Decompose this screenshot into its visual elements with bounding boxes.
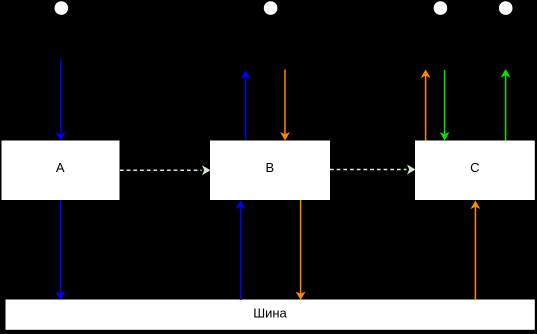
interface circle 1 (above A) <box>55 1 69 15</box>
wire: blue arrow up from bus into B bottom <box>236 201 246 301</box>
block A <box>2 141 120 201</box>
wire: blue arrow down from A bottom to bus <box>56 200 66 300</box>
svg-text:B: B <box>265 160 274 175</box>
wire: orange arrow down into B top <box>280 70 290 141</box>
svg-text:Шина: Шина <box>253 306 287 321</box>
wire: orange arrow up above C <box>421 70 431 141</box>
wire: dashed arrow A to B <box>120 165 211 175</box>
bus Шина <box>6 300 535 330</box>
wire: dashed arrow B to C <box>330 165 416 175</box>
svg-text:C: C <box>470 160 479 175</box>
wire: green arrow down into C top <box>440 70 450 141</box>
block B <box>210 141 330 201</box>
wire: blue arrow up into B top area <box>241 71 251 141</box>
interface circle 2 (above B) <box>264 1 278 15</box>
block C <box>415 141 535 201</box>
interface circle 4 (above C right) <box>499 1 513 15</box>
wire: green arrow up above C right <box>501 69 511 141</box>
wire: orange arrow up from bus into C bottom <box>470 201 480 301</box>
interface circle 3 (above C left) <box>434 1 448 15</box>
wire: orange arrow down from B bottom to bus <box>296 200 306 300</box>
svg-text:A: A <box>56 160 65 175</box>
wire: blue arrow down into A top <box>56 60 66 141</box>
